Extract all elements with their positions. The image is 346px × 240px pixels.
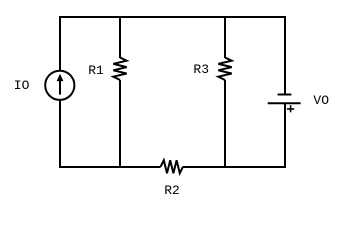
wire top rail <box>59 16 286 18</box>
resistor R2 <box>161 160 183 173</box>
voltage source V0 <box>268 95 301 104</box>
current source I0 <box>45 71 74 100</box>
wire R1 upper segment <box>119 16 121 58</box>
svg-text:R3: R3 <box>193 62 209 77</box>
label R1 <box>88 63 104 78</box>
wire R1 lower segment <box>119 80 121 168</box>
resistor R1 <box>113 58 126 81</box>
wire R3 lower segment <box>224 80 226 168</box>
wire left upper segment <box>59 16 61 71</box>
svg-text:VO: VO <box>313 93 329 108</box>
resistor R3 <box>218 58 231 81</box>
svg-text:R2: R2 <box>164 183 180 198</box>
wire R3 upper segment <box>224 16 226 58</box>
label R3 <box>193 62 209 77</box>
plus polarity mark <box>287 105 294 112</box>
wire left lower segment <box>59 100 61 168</box>
wire right upper segment <box>284 16 286 95</box>
wire bottom left segment <box>59 166 161 168</box>
label I0 <box>14 78 30 93</box>
wire bottom right segment <box>183 166 286 168</box>
svg-text:R1: R1 <box>88 63 104 78</box>
label R2 <box>164 183 180 198</box>
svg-text:IO: IO <box>14 78 30 93</box>
label V0 <box>313 93 329 108</box>
wire right lower segment <box>284 103 286 168</box>
